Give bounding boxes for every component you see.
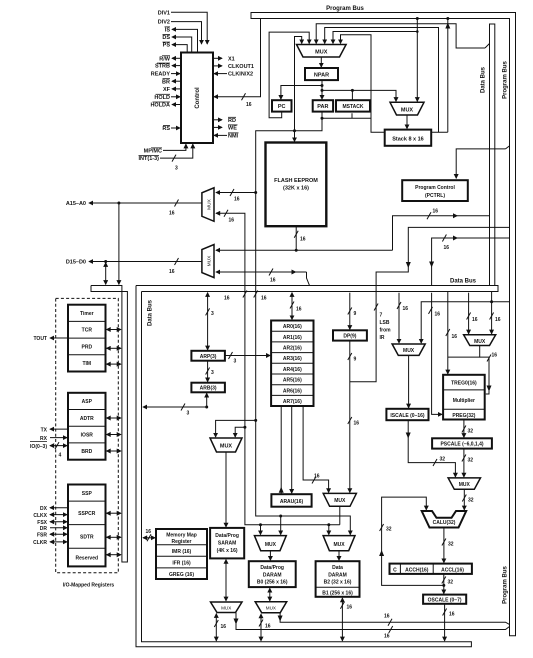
wire: branch from PAR vertical to AR mux left input [216, 419, 258, 437]
svg-text:MUX: MUX [206, 255, 212, 266]
svg-text:16: 16 [492, 353, 498, 359]
svg-text:MUX: MUX [333, 542, 345, 548]
wire: HOLDA output [172, 104, 181, 106]
svg-text:32: 32 [386, 527, 392, 533]
svg-text:DR: DR [40, 526, 48, 532]
wire: CALU mux output to CALU (32) [462, 489, 473, 510]
wire: branch from middle vertical to AR mux right input [235, 427, 245, 437]
wire: DARAM B0 to bottom MUX bidirectional [269, 588, 271, 601]
svg-text:PC: PC [278, 104, 286, 110]
block: FLASH EEPROM (32K x 16) [266, 143, 327, 227]
wire: vertical from Program Bus to Stack stub [445, 17, 450, 132]
svg-text:IFR (16): IFR (16) [172, 560, 191, 566]
mux: TREG0 MUX [464, 335, 496, 346]
wire: NPAR output to PAR [321, 80, 324, 99]
svg-text:Program Bus: Program Bus [503, 61, 509, 99]
label: Program Bus (right vertical top, rotated) [503, 61, 509, 99]
svg-text:32: 32 [468, 498, 474, 504]
svg-text:16: 16 [384, 634, 390, 640]
label: TX RX IO(0-3) [30, 427, 48, 450]
block: PSCALE (-6,0,1,4) [432, 438, 492, 448]
wire: Data Bus tap to DP (9) [348, 293, 357, 330]
wire: TX output [50, 428, 68, 430]
wire: SDTR to branch bus bidirectional [107, 536, 121, 538]
block: ARAU(16) [271, 494, 311, 507]
svg-text:B1 (256 x 16): B1 (256 x 16) [322, 590, 353, 596]
wire: W2 Data Bus / Program Bus transfer (16) [429, 235, 509, 286]
svg-text:16: 16 [146, 529, 152, 535]
svg-text:16: 16 [354, 421, 360, 427]
svg-text:AR4(16): AR4(16) [283, 367, 302, 373]
svg-text:FLASH EEPROM: FLASH EEPROM [274, 178, 318, 184]
svg-text:DS: DS [162, 35, 170, 41]
wire: PAR output to flash line, A-mux and H1 distribution [254, 112, 351, 535]
block: CALU(32) [422, 511, 467, 528]
svg-text:OSCALE (0–7): OSCALE (0–7) [428, 598, 462, 604]
wire: bottom right MUX left port to Data Bus bottom bar (16) bidirectional [259, 614, 271, 641]
wire: H1 branch down to DARAM B0 mux right input [280, 516, 282, 535]
wire: Program Bus tap to program MUX2 right input [416, 17, 419, 101]
wire: RS input [171, 127, 180, 129]
wire: A15-A0 address line [89, 200, 202, 217]
wire: bottom MUX left port to Data Bus bottom bar (16) bidirectional [214, 614, 226, 641]
svg-text:B2 (32 x 16): B2 (32 x 16) [324, 580, 352, 586]
mux: address MUX (A15) [202, 188, 214, 222]
wire: ISCALE mux output to ISCALE [408, 355, 410, 407]
svg-text:16: 16 [314, 474, 320, 480]
wire: SSPCR to branch bus bidirectional [107, 512, 121, 514]
label: TOUT [33, 336, 47, 342]
svg-text:ACCL(16): ACCL(16) [441, 567, 464, 573]
block: ARB(3) register [191, 383, 225, 393]
svg-text:XF: XF [163, 87, 171, 93]
wire: ARP to AR registers (3) [225, 352, 270, 365]
wire: H2 branch to DARAM B0 mux left input [260, 525, 262, 535]
wire: TCR to branch bus bidirectional [107, 329, 121, 331]
block: Timer (TCR/PRD/TIM) [68, 305, 106, 372]
label: D15-D0 [66, 260, 86, 266]
svg-text:32: 32 [448, 542, 454, 548]
svg-text:AR1(16): AR1(16) [283, 335, 302, 341]
label: overlines for right signals [228, 117, 239, 133]
wire: DS output [172, 37, 192, 53]
wire: PCTRL input from Program Bus vertical [456, 146, 509, 178]
wire: R/W output [172, 57, 181, 59]
wire: Reserved to branch bus bidirectional [107, 554, 121, 556]
svg-text:16: 16 [472, 317, 478, 323]
block: PAR register [313, 100, 333, 111]
svg-text:Multiplier: Multiplier [453, 398, 475, 404]
wire: program MUX input 6 from MSTACK loop [322, 35, 371, 119]
wire: PRD to branch bus bidirectional [107, 347, 121, 349]
svg-text:MUX: MUX [474, 339, 486, 345]
svg-text:BRD: BRD [81, 449, 92, 455]
wire: Data Bus tap to TREG mux right input (16) [490, 292, 501, 334]
mux: ISCALE input MUX [392, 344, 425, 355]
wire: PSCALE output to CALU mux (32) [462, 449, 473, 477]
svg-text:TX: TX [41, 427, 48, 433]
svg-text:16: 16 [296, 307, 302, 313]
svg-text:SARAM: SARAM [218, 540, 236, 546]
wire: ARP to ARB (3) [206, 361, 214, 382]
wire: NMI input [214, 134, 227, 136]
svg-text:(PCTRL): (PCTRL) [425, 193, 445, 199]
label: overlines for left signals [139, 27, 171, 156]
wire: W1 program bus to 7 LSB from IR path into DP line [350, 227, 510, 381]
wire: HOLD input [171, 96, 180, 98]
wire: X1 output [213, 57, 222, 59]
label: A15-A0 [66, 201, 86, 207]
svg-text:CALU(32): CALU(32) [433, 520, 456, 526]
svg-text:16: 16 [495, 317, 501, 323]
wire: WE output [213, 126, 222, 128]
svg-text:(4K x 16): (4K x 16) [217, 548, 238, 554]
wire: program MUX input 4 from stack riser [325, 28, 439, 133]
wire: Data Bus tap to TREG mux left input (16) [467, 293, 478, 334]
wire: ADTR to branch bus bidirectional [107, 417, 121, 419]
wire: PS output [172, 45, 187, 53]
svg-text:HOLDA: HOLDA [150, 103, 170, 109]
svg-text:CLKOUT1: CLKOUT1 [228, 64, 254, 70]
wire: FLASH output to data line [294, 226, 306, 252]
svg-text:SSPCR: SSPCR [78, 511, 96, 517]
svg-text:IO(0–3): IO(0–3) [30, 444, 47, 450]
wire: CALU output to ACC (32) [442, 528, 454, 563]
svg-text:Data/Prog: Data/Prog [260, 565, 284, 571]
wire: MUX2 output to Stack [406, 115, 408, 129]
svg-text:MUX: MUX [220, 444, 233, 450]
wire: BRD to branch bus bidirectional [107, 450, 121, 452]
mux: program address MUX (top) [297, 45, 347, 58]
svg-text:MUX: MUX [459, 482, 471, 488]
mux: stack MUX (MUX2) [390, 102, 424, 115]
svg-text:Control: Control [195, 87, 201, 109]
svg-text:9: 9 [354, 311, 357, 317]
svg-text:ARAU(16): ARAU(16) [280, 499, 304, 505]
wire: data line to D-MUX input 1 [216, 249, 393, 251]
svg-text:3: 3 [234, 359, 237, 365]
svg-text:A15–A0: A15–A0 [66, 201, 86, 207]
wire: MP/MC input (bottom) [163, 144, 186, 150]
svg-text:FSR: FSR [37, 532, 47, 538]
svg-text:AR5(16): AR5(16) [283, 378, 302, 384]
svg-text:PRD: PRD [82, 344, 93, 350]
svg-text:16: 16 [246, 102, 252, 108]
svg-text:WE: WE [228, 126, 237, 132]
svg-text:LSB: LSB [380, 320, 390, 326]
svg-text:X1: X1 [228, 56, 235, 62]
svg-text:CLKR: CLKR [33, 540, 47, 546]
wire: CLKR bidirectional [50, 541, 67, 543]
label: serial port signals [33, 506, 48, 546]
wire: NPAR output branch to PC [281, 86, 322, 100]
wire: ISCALE output to CALU mux left input (32) [406, 420, 456, 477]
wire: IO(0-3) bidirectional with width-4 slash [50, 442, 67, 458]
svg-text:READY: READY [151, 72, 171, 78]
svg-text:16: 16 [224, 296, 230, 302]
label: I/O-Mapped Registers caption [63, 583, 115, 589]
wire: FSX bidirectional [50, 521, 67, 523]
wire: hook from flash line up to program MUX input 1 [295, 37, 302, 131]
bus: Data Bus right vertical pair [490, 24, 495, 286]
svg-text:C: C [393, 567, 397, 573]
svg-text:Program Bus: Program Bus [503, 566, 509, 604]
mux: DARAM B0 MUX [254, 536, 286, 551]
svg-text:PREG(32): PREG(32) [452, 413, 475, 419]
svg-text:MUX: MUX [401, 107, 414, 113]
svg-text:TOUT: TOUT [33, 336, 47, 342]
svg-text:32: 32 [468, 458, 474, 464]
mux: CALU input MUX [448, 478, 480, 489]
wire: READY input [171, 73, 180, 75]
wire: stub from Stack right edge to program wire [430, 131, 448, 133]
svg-text:GREG (16): GREG (16) [169, 572, 194, 578]
wire: flash line feed into FLASH EEPROM top [294, 131, 296, 142]
svg-text:NMI: NMI [228, 134, 239, 140]
svg-text:AR7(16): AR7(16) [283, 399, 302, 405]
wire: TIM to branch bus bidirectional [107, 363, 121, 365]
svg-text:RS: RS [162, 126, 170, 132]
svg-text:CLKIN/X2: CLKIN/X2 [228, 72, 253, 78]
svg-text:MUX: MUX [266, 606, 276, 611]
svg-text:IR: IR [380, 335, 385, 341]
mux: ARB address MUX [210, 438, 242, 452]
svg-text:Program Control: Program Control [415, 185, 455, 191]
svg-text:DARAM: DARAM [328, 572, 347, 578]
svg-text:16: 16 [270, 278, 276, 284]
mux: DARAM B2/B1 MUX [323, 536, 355, 551]
svg-text:3: 3 [211, 370, 214, 376]
label: 7 LSB from IR [380, 313, 392, 342]
wire: DARAM B1 to Data Bus bottom bar (16) bidirectional [340, 598, 352, 641]
svg-text:HOLD: HOLD [154, 95, 170, 101]
wire: ARAU mux output to H2 [339, 506, 341, 524]
label: Program Bus (top) [326, 6, 364, 12]
svg-text:STRB: STRB [155, 64, 170, 70]
svg-text:SDTR: SDTR [80, 535, 94, 541]
block: ARP(3) register [191, 351, 225, 361]
svg-text:TIM: TIM [82, 361, 91, 367]
svg-text:RX: RX [40, 436, 48, 442]
svg-text:ARB(3): ARB(3) [200, 386, 217, 392]
svg-text:MUX: MUX [334, 498, 346, 504]
svg-text:32: 32 [468, 429, 474, 435]
wire: program MUX input 3 from Data Bus vertical [316, 24, 489, 48]
wire: OSCALE output to Data Bus bottom bar (16) [443, 604, 455, 641]
svg-text:16: 16 [347, 605, 353, 611]
svg-text:PSCALE (–6,0,1,4): PSCALE (–6,0,1,4) [440, 442, 483, 448]
wire: IOSR to branch bus bidirectional [107, 434, 121, 436]
block: NPAR register [305, 68, 338, 80]
wire: SARAM to bottom MUX bidirectional [225, 560, 227, 601]
label: Data Bus (above right end of horizontal bar) [450, 279, 477, 285]
label: Data Bus (right vertical, rotated) [481, 66, 487, 93]
svg-text:DIV1: DIV1 [158, 10, 170, 16]
wire: CLKIN/X2 input [214, 73, 227, 75]
wire: A-MUX input 2 (16) and long middle vertical to H2 [216, 210, 340, 526]
svg-text:MUX: MUX [315, 50, 328, 56]
svg-text:AR0(16): AR0(16) [283, 324, 302, 330]
block: AR0-AR7 auxiliary register file [271, 321, 313, 407]
block: ISCALE (0-16) [386, 409, 428, 420]
wire: XF output [172, 88, 181, 90]
svg-text:Data Bus: Data Bus [481, 66, 487, 93]
svg-text:ISCALE (0–16): ISCALE (0–16) [390, 413, 425, 419]
svg-text:32: 32 [440, 457, 446, 463]
wire: branch down into MSTACK top [351, 90, 353, 100]
svg-text:3: 3 [175, 166, 178, 172]
label: Data Bus (left vertical, rotated) [148, 299, 154, 326]
svg-text:NPAR: NPAR [314, 72, 329, 78]
wire: DIV1 input [171, 12, 207, 44]
label: left control signal names [139, 10, 171, 162]
wire: AR registers down to ARAU [291, 406, 293, 493]
wire: D-MUX input 2 from Data Bus (16) [216, 269, 310, 286]
block: Memory Map Register (IMR/IFR/GREG) [156, 529, 207, 579]
wire: H2 branch to DARAM B2 mux left input [328, 525, 330, 535]
wire: MSTACK bottom stub to loop [351, 113, 353, 118]
block: Control U1 [181, 53, 213, 144]
svg-text:IMR (16): IMR (16) [172, 549, 192, 555]
svg-text:MUX: MUX [221, 606, 231, 611]
mux: ARAU address MUX [323, 493, 356, 506]
block: I/O-Mapped Registers dashed enclosure [56, 298, 119, 572]
svg-text:16: 16 [403, 306, 409, 312]
svg-text:Program Bus: Program Bus [326, 6, 364, 12]
wire: Data Bus tap to PREG (16) [429, 293, 443, 415]
mux: bottom left MUX (SARAM port) [211, 602, 243, 613]
wire: PREG output to PSCALE (32) [462, 420, 473, 438]
svg-text:PS: PS [163, 43, 171, 49]
wire: Program Bus to ISCALE mux right input [421, 300, 509, 343]
block: MSTACK register [336, 100, 370, 111]
svg-text:DX: DX [40, 506, 48, 512]
svg-text:16: 16 [433, 209, 439, 215]
wire: CLKOUT1 output [213, 65, 222, 67]
wire: CLKX bidirectional [50, 514, 67, 516]
wire: WB bottom program feed line from right MUX [278, 613, 510, 626]
wire: WA bottom program feed line from left MUX [234, 613, 510, 640]
svg-text:B0 (256 x 16): B0 (256 x 16) [257, 580, 288, 586]
svg-text:IOSR: IOSR [81, 433, 94, 439]
svg-text:16: 16 [234, 197, 240, 203]
svg-text:MP/MC: MP/MC [144, 149, 162, 155]
block: accumulator C / ACCH(16) / ACCL(16) [390, 564, 472, 574]
block: TREG0 / Multiplier / PREG [443, 375, 485, 420]
mux: data MUX (D15) [202, 245, 214, 278]
svg-text:16: 16 [449, 612, 455, 618]
svg-text:Data Bus: Data Bus [148, 299, 154, 326]
wire: A-MUX input 1 (16) [216, 189, 256, 203]
bus: Program Bus (top bar + right vertical bar) [251, 13, 516, 636]
svg-text:16: 16 [384, 614, 390, 620]
svg-text:INT(1-3): INT(1-3) [139, 156, 160, 162]
svg-text:ADTR: ADTR [80, 416, 94, 422]
svg-text:I/O-Mapped Registers: I/O-Mapped Registers [63, 583, 115, 589]
svg-text:Timer: Timer [80, 311, 94, 317]
wire: D15-D0 data line [89, 258, 202, 275]
wire: INT(1-3) input with width-3 slash [160, 144, 193, 171]
svg-text:TCR: TCR [82, 328, 93, 334]
wire: DR input [50, 527, 67, 529]
svg-text:TREG0(16): TREG0(16) [451, 381, 477, 387]
svg-text:16: 16 [435, 312, 441, 318]
wire: ACC output to OSCALE (32) [442, 574, 453, 594]
block: ASP (ADTR/IOSR/BRD) [68, 393, 106, 460]
svg-text:16: 16 [169, 269, 175, 275]
block: Data/Prog SARAM (4K x 16) [210, 528, 244, 559]
wire: ARB mux output to SARAM [225, 452, 227, 527]
block: Data/Prog DARAM B0 (256 x 16) [249, 561, 296, 587]
svg-text:32: 32 [448, 580, 454, 586]
svg-text:Reserved: Reserved [76, 556, 99, 562]
block: DP(9) register [333, 330, 367, 340]
wire: B2 MUX output to DARAM B2 [338, 551, 340, 561]
wire: ACC feedback loop to CALU left input (32) [379, 497, 444, 585]
svg-text:16: 16 [261, 296, 267, 302]
svg-text:16: 16 [229, 217, 235, 223]
wire: ARB input from Data Bus (3) [143, 393, 208, 416]
wire: MSTACK loop stub into Stack left edge [371, 118, 384, 132]
block: Stack 8 x 16 [385, 130, 432, 146]
wire: Data Bus tap to ISCALE mux left input (16) [397, 293, 408, 343]
svg-text:AR2(16): AR2(16) [283, 346, 302, 352]
wire: program MUX input 5 from program bus dot wire [333, 32, 417, 44]
svg-text:ASP: ASP [82, 399, 93, 405]
svg-text:DP(9): DP(9) [343, 334, 356, 340]
svg-text:RD: RD [228, 118, 236, 124]
svg-text:DARAM: DARAM [263, 572, 282, 578]
svg-text:16: 16 [169, 211, 175, 217]
wire: Memory Map Register to Data Bus (16) bidirectional [143, 529, 155, 541]
label: Program Bus (right vertical bottom, rotated) [503, 566, 509, 604]
svg-text:AR6(16): AR6(16) [283, 388, 302, 394]
label: right control signal names [228, 56, 254, 139]
bus: I/O register branch bus (left) [91, 286, 127, 563]
wire: Data Bus tap to TREG0 (16) [446, 292, 457, 374]
svg-text:MUX: MUX [265, 542, 277, 548]
svg-text:from: from [380, 328, 392, 334]
svg-text:R/W: R/W [159, 56, 171, 62]
wire: RX input [50, 437, 67, 439]
svg-text:IS: IS [165, 28, 171, 34]
svg-text:AR3(16): AR3(16) [283, 356, 302, 362]
svg-text:9: 9 [354, 357, 357, 363]
svg-text:MUX: MUX [403, 348, 415, 354]
wire: AR registers to ARAU mux left input (16) [303, 406, 329, 492]
svg-text:DIV2: DIV2 [158, 20, 170, 26]
block: PC register [272, 100, 292, 111]
svg-text:3: 3 [187, 411, 190, 417]
wire: FSR bidirectional [50, 533, 67, 535]
svg-text:CLKX: CLKX [33, 513, 47, 519]
wire: program MUX output to NPAR [320, 57, 322, 67]
svg-text:16: 16 [221, 624, 227, 630]
mux: bottom right MUX (B0 port) [255, 602, 287, 613]
svg-text:7: 7 [380, 313, 383, 319]
svg-text:Data: Data [332, 565, 343, 571]
svg-text:3: 3 [211, 311, 214, 317]
svg-text:Data Bus: Data Bus [450, 279, 477, 285]
wire: NPAR output branch to MUX2 left input [322, 89, 396, 101]
wire: Data Bus tap to ARP (3) bidirectional [206, 293, 214, 350]
svg-text:Memory Map: Memory Map [166, 533, 197, 539]
wire: 16-bit bus from Program Bus into Control [214, 19, 261, 109]
wire: IS output [172, 29, 198, 52]
wire: D15 tap bidirectional to I/O branch bus [105, 263, 107, 285]
wire: STRB output [172, 65, 181, 67]
label: overline for IO(0-3) [30, 441, 47, 443]
